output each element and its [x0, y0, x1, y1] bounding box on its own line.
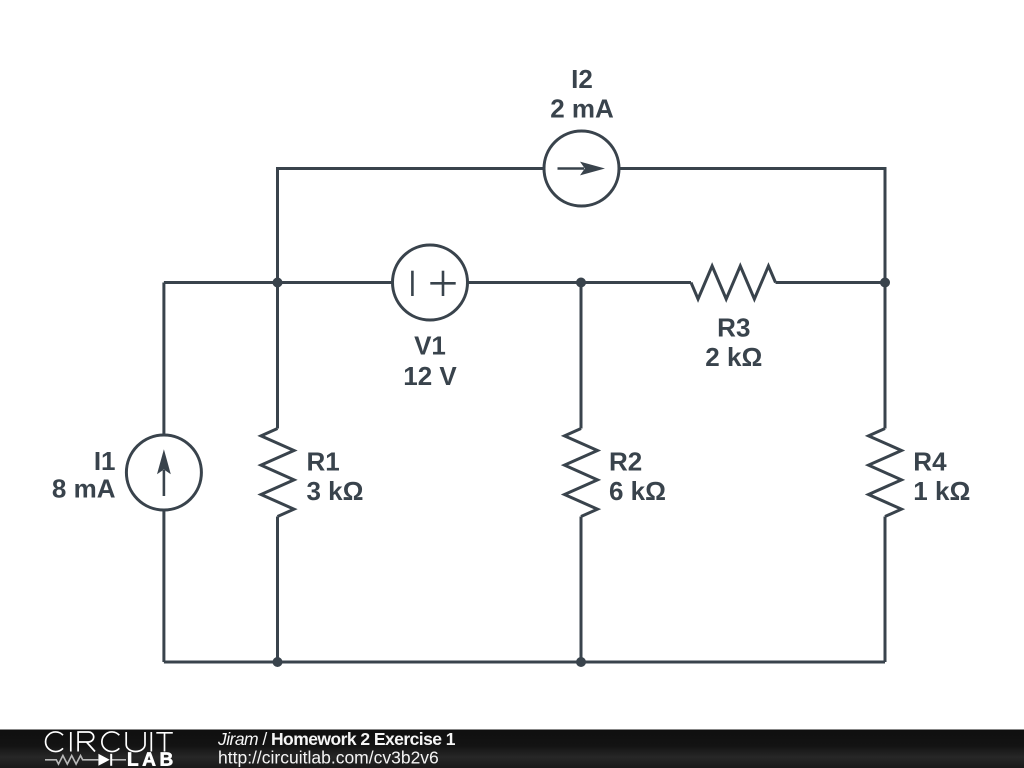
svg-text:R2: R2: [609, 447, 642, 477]
svg-text:2 kΩ: 2 kΩ: [705, 342, 762, 372]
svg-text:8 mA: 8 mA: [52, 474, 116, 504]
svg-text:12 V: 12 V: [403, 361, 457, 391]
svg-text:3 kΩ: 3 kΩ: [307, 476, 364, 506]
svg-text:V1: V1: [414, 331, 446, 361]
svg-text:Jiram / Homework 2 Exercise 1: Jiram / Homework 2 Exercise 1: [217, 729, 456, 749]
svg-text:1 kΩ: 1 kΩ: [913, 476, 970, 506]
svg-text:I2: I2: [571, 64, 593, 94]
svg-text:R3: R3: [717, 313, 750, 343]
svg-text:http://circuitlab.com/cv3b2v6: http://circuitlab.com/cv3b2v6: [218, 748, 439, 768]
svg-text:R4: R4: [913, 447, 947, 477]
svg-text:I1: I1: [94, 446, 116, 476]
svg-text:R1: R1: [307, 447, 340, 477]
svg-text:6 kΩ: 6 kΩ: [609, 476, 666, 506]
svg-text:2 mA: 2 mA: [550, 94, 614, 124]
